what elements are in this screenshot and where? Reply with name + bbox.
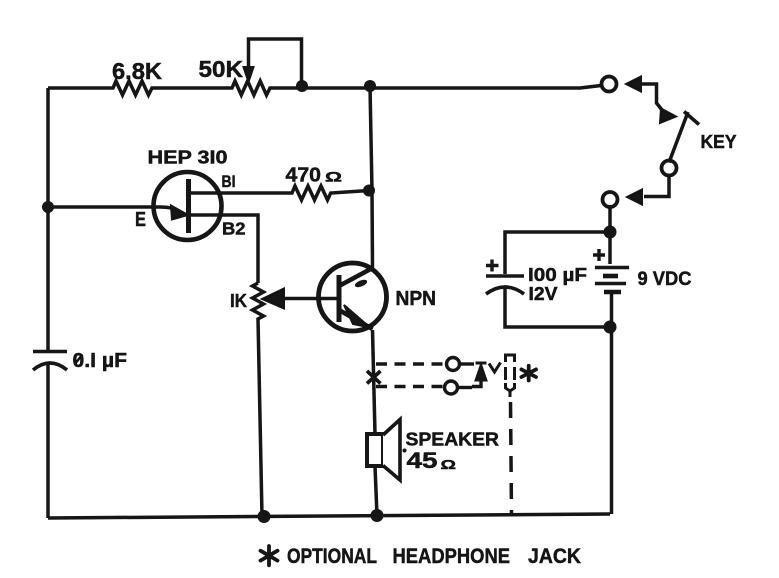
svg-text:SPEAKER: SPEAKER [406,430,500,450]
svg-text:9 VDC: 9 VDC [638,269,692,290]
svg-text:KEY: KEY [701,131,738,152]
svg-text:50K: 50K [199,56,244,82]
svg-text:OPTIONAL: OPTIONAL [287,545,377,568]
svg-text:HEADPHONE: HEADPHONE [393,545,511,568]
svg-text:Ω: Ω [441,457,457,472]
svg-text:Ω: Ω [325,169,342,185]
svg-text:IK: IK [230,291,247,311]
svg-text:B2: B2 [222,219,246,239]
svg-text:45: 45 [407,448,438,473]
svg-text:I00 µF: I00 µF [528,265,587,285]
svg-text:E: E [135,209,146,231]
svg-text:470: 470 [286,165,322,187]
svg-text:BI: BI [222,173,236,191]
svg-text:0.I µF: 0.I µF [73,350,128,372]
svg-text:HEP 3I0: HEP 3I0 [148,148,228,168]
svg-text:I2V: I2V [529,284,558,304]
svg-text:6.8K: 6.8K [112,58,162,84]
svg-text:NPN: NPN [396,288,437,310]
svg-text:JACK: JACK [528,545,581,568]
